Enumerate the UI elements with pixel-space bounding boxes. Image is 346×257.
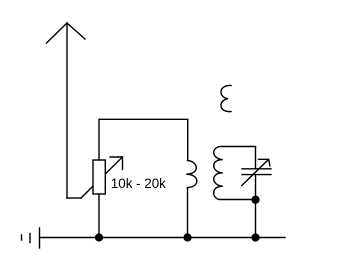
resistor R1 bbox=[93, 160, 105, 194]
node junction L1-rail bbox=[183, 233, 191, 241]
inductor L1 bbox=[187, 161, 197, 189]
capacitor arrow bbox=[242, 159, 270, 185]
node junction resistor-rail bbox=[95, 233, 103, 241]
wire junction to rail bbox=[255, 200, 257, 238]
capacitor C1 (variable) bbox=[242, 147, 271, 200]
node junction L3-C1 bbox=[251, 196, 259, 204]
wire antenna to wiper bbox=[67, 197, 81, 199]
node junction C1-rail bbox=[251, 233, 259, 241]
ground bbox=[22, 228, 40, 248]
antenna bbox=[47, 23, 86, 198]
svg-text:10k - 20k: 10k - 20k bbox=[111, 176, 166, 191]
wire resistor bottom to rail bbox=[98, 194, 100, 238]
wire top loop bbox=[99, 119, 188, 160]
wire bottom rail bbox=[40, 237, 286, 239]
inductor L3 bbox=[214, 146, 256, 199]
rheostat wiper arrow bbox=[81, 157, 123, 198]
inductor L2 coupling coil bbox=[221, 85, 231, 111]
wire L1 bottom to rail bbox=[187, 188, 189, 238]
